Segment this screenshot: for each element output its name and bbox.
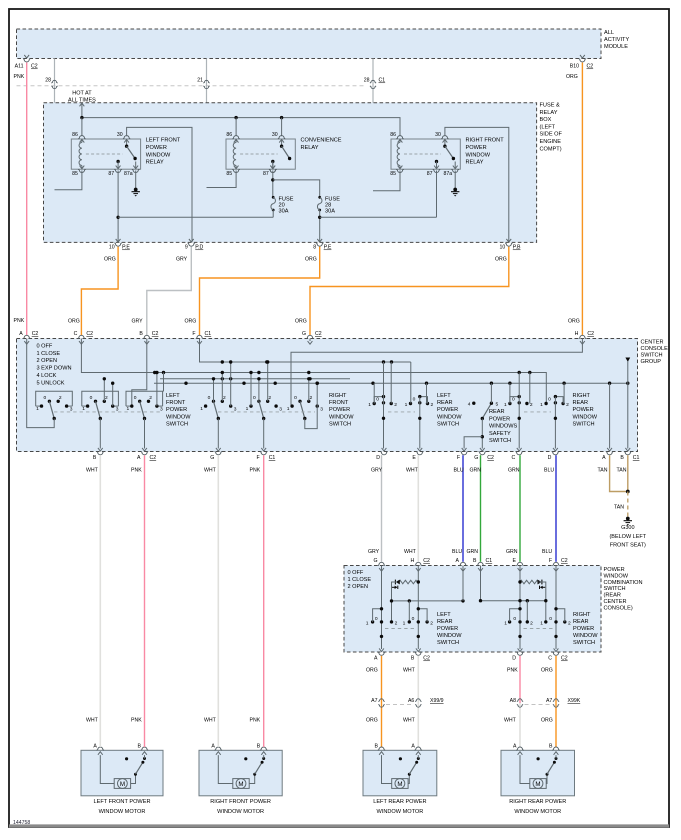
svg-text:LEFT: LEFT bbox=[166, 393, 180, 399]
svg-text:144758: 144758 bbox=[13, 820, 30, 826]
svg-text:1: 1 bbox=[366, 620, 369, 626]
svg-text:0: 0 bbox=[548, 397, 551, 403]
svg-text:0: 0 bbox=[90, 395, 93, 401]
svg-text:RIGHT: RIGHT bbox=[573, 393, 591, 399]
svg-text:A: A bbox=[93, 744, 97, 750]
svg-text:C: C bbox=[548, 656, 552, 662]
svg-text:A: A bbox=[456, 558, 460, 564]
svg-text:BLU: BLU bbox=[454, 468, 464, 474]
fuse 20 30A bbox=[272, 196, 275, 199]
svg-text:ORG: ORG bbox=[366, 718, 378, 724]
wire relay K3 pin 85 to module pin 28 C1 bbox=[373, 171, 400, 191]
svg-text:CONSOLE): CONSOLE) bbox=[604, 605, 633, 611]
wire console D to rear G (GRY) bbox=[381, 455, 383, 562]
svg-text:GRN: GRN bbox=[470, 468, 482, 474]
wire console GRY feed to left front switch bbox=[132, 341, 147, 406]
wire module A11 to console (PNK) bbox=[26, 63, 28, 336]
svg-text:2: 2 bbox=[395, 620, 398, 626]
svg-text:CONVENIENCE: CONVENIENCE bbox=[301, 138, 342, 144]
svg-text:C1: C1 bbox=[633, 455, 640, 461]
svg-text:0: 0 bbox=[43, 395, 46, 401]
console output F C1 bbox=[261, 448, 266, 451]
console output A C2 bbox=[142, 448, 147, 451]
svg-text:C2: C2 bbox=[31, 64, 38, 70]
svg-text:0: 0 bbox=[375, 616, 378, 622]
svg-text:2 OPEN: 2 OPEN bbox=[348, 584, 369, 590]
svg-text:(BELOW LEFT: (BELOW LEFT bbox=[609, 534, 646, 540]
svg-text:0 OFF: 0 OFF bbox=[37, 344, 53, 350]
console output D bbox=[553, 448, 558, 451]
svg-text:2 OPEN: 2 OPEN bbox=[37, 358, 58, 364]
svg-text:A: A bbox=[19, 331, 23, 337]
svg-text:WHT: WHT bbox=[403, 668, 416, 674]
svg-text:CENTER: CENTER bbox=[641, 339, 664, 345]
svg-text:28: 28 bbox=[45, 78, 51, 84]
svg-text:3: 3 bbox=[160, 406, 163, 412]
svg-text:ORG: ORG bbox=[495, 257, 507, 263]
svg-text:A6: A6 bbox=[408, 698, 414, 704]
svg-text:POWER: POWER bbox=[604, 567, 625, 573]
svg-text:0: 0 bbox=[412, 616, 415, 622]
svg-text:ORG: ORG bbox=[541, 718, 553, 724]
console input A C2 bbox=[23, 335, 30, 338]
inline connector pin 28 C1 bbox=[370, 80, 376, 83]
svg-text:RELAY: RELAY bbox=[301, 145, 319, 151]
svg-text:SWITCH: SWITCH bbox=[641, 353, 663, 359]
svg-text:WHT: WHT bbox=[406, 468, 419, 474]
svg-text:COMBINATION: COMBINATION bbox=[604, 580, 643, 586]
console output B bbox=[98, 448, 103, 451]
console output E bbox=[417, 448, 422, 451]
rear window rocker at x=555.4 bbox=[554, 401, 557, 404]
wire console E to rear H (WHT) bbox=[417, 455, 419, 562]
rear box input G bbox=[378, 562, 385, 565]
svg-text:G: G bbox=[210, 455, 214, 461]
svg-text:C1: C1 bbox=[486, 558, 493, 564]
wire bus to relay K2 pin 30 bbox=[281, 118, 283, 137]
svg-text:1: 1 bbox=[36, 406, 39, 412]
svg-text:21: 21 bbox=[197, 78, 203, 84]
svg-text:(REAR: (REAR bbox=[604, 593, 621, 599]
module box ALL ACTIVITY MODULE bbox=[17, 29, 602, 59]
svg-text:BOX: BOX bbox=[540, 117, 552, 123]
svg-text:B: B bbox=[93, 455, 97, 461]
console input B C2 bbox=[143, 335, 150, 338]
svg-text:2: 2 bbox=[430, 620, 433, 626]
motor symbol M2 RIGHT FRONT POWER WINDOW MOTOR bbox=[218, 755, 233, 783]
svg-text:SWITCH: SWITCH bbox=[437, 640, 459, 646]
svg-text:5 UNLOCK: 5 UNLOCK bbox=[37, 380, 65, 386]
inline connector X99K bbox=[517, 699, 523, 702]
wire module pin 21 bbox=[206, 59, 208, 188]
svg-text:TAN: TAN bbox=[617, 468, 627, 474]
svg-text:3: 3 bbox=[320, 406, 323, 412]
svg-text:POWER: POWER bbox=[166, 407, 187, 413]
relay K2 CONVENIENCE RELAY bbox=[226, 139, 295, 169]
wire console bus from H (ORG feed) bbox=[291, 341, 582, 406]
svg-text:C2: C2 bbox=[587, 331, 594, 337]
switch rocker at x=300 bbox=[290, 404, 293, 407]
svg-text:B10: B10 bbox=[570, 64, 579, 70]
svg-text:87a: 87a bbox=[444, 171, 453, 177]
wire rocker to output F C1 bbox=[263, 419, 265, 449]
svg-text:2: 2 bbox=[566, 402, 569, 408]
svg-text:9: 9 bbox=[185, 245, 188, 251]
svg-text:PNK: PNK bbox=[14, 318, 25, 324]
svg-text:0: 0 bbox=[253, 395, 256, 401]
connector A11 C2 (module, PNK) bbox=[24, 55, 29, 58]
wire relay K1 pin 30 to output 9 P.D bbox=[127, 127, 192, 242]
svg-text:C: C bbox=[511, 455, 515, 461]
svg-text:WHT: WHT bbox=[403, 718, 416, 724]
svg-text:A7: A7 bbox=[546, 698, 552, 704]
svg-text:C2: C2 bbox=[561, 558, 568, 564]
wire rear D to motor (PNK to WHT) bbox=[519, 656, 521, 703]
svg-text:POWER: POWER bbox=[489, 416, 510, 422]
wire rocker to output B bbox=[99, 419, 101, 449]
svg-text:WINDOW: WINDOW bbox=[604, 573, 629, 579]
svg-text:E: E bbox=[513, 558, 517, 564]
connector B10 C2 (module, ORG) bbox=[580, 55, 585, 58]
svg-text:TAN: TAN bbox=[598, 468, 608, 474]
svg-text:C: C bbox=[74, 331, 78, 337]
svg-text:F: F bbox=[549, 558, 552, 564]
svg-text:2: 2 bbox=[59, 395, 62, 401]
fuse and relay box bbox=[44, 103, 537, 243]
svg-text:1: 1 bbox=[82, 406, 85, 412]
svg-text:X99/9: X99/9 bbox=[430, 698, 444, 704]
svg-text:C2: C2 bbox=[86, 331, 93, 337]
right rear power window switch (rear box) bbox=[519, 568, 521, 649]
svg-text:C2: C2 bbox=[561, 656, 568, 662]
svg-text:3: 3 bbox=[116, 406, 119, 412]
wire rear A to motor (ORG) bbox=[381, 656, 383, 747]
svg-text:LEFT: LEFT bbox=[437, 612, 451, 618]
wire rear B to motor (WHT) bbox=[417, 656, 419, 747]
svg-text:87: 87 bbox=[427, 171, 433, 177]
svg-text:PNK: PNK bbox=[131, 468, 142, 474]
svg-text:G: G bbox=[474, 455, 478, 461]
svg-text:HOT AT: HOT AT bbox=[72, 91, 92, 97]
svg-text:SWITCH: SWITCH bbox=[329, 421, 351, 427]
svg-text:10: 10 bbox=[500, 245, 506, 251]
wire bus to relay K1 pin 86 bbox=[81, 118, 83, 137]
svg-text:WINDOW: WINDOW bbox=[166, 414, 191, 420]
svg-text:WINDOW: WINDOW bbox=[573, 414, 598, 420]
wire console B to left front motor A (WHT) bbox=[99, 455, 101, 747]
svg-text:2: 2 bbox=[530, 402, 533, 408]
svg-text:C2: C2 bbox=[487, 455, 494, 461]
svg-text:WHT: WHT bbox=[504, 718, 517, 724]
wire rocker to output E bbox=[419, 397, 421, 449]
svg-text:RIGHT: RIGHT bbox=[329, 393, 347, 399]
wire rocker to output D (right) bbox=[554, 397, 556, 449]
wire console bus 1 bbox=[200, 341, 411, 362]
wire rocker to output G bbox=[217, 419, 219, 449]
svg-text:85: 85 bbox=[72, 171, 78, 177]
svg-text:BLU: BLU bbox=[542, 549, 552, 555]
svg-text:PNK: PNK bbox=[131, 718, 142, 724]
svg-text:28: 28 bbox=[364, 78, 370, 84]
svg-text:D: D bbox=[548, 455, 552, 461]
console output G bbox=[216, 448, 221, 451]
svg-text:ORG: ORG bbox=[566, 74, 578, 80]
wire relay K3 pin 87 drop bbox=[436, 171, 438, 218]
svg-text:A11: A11 bbox=[15, 64, 24, 70]
svg-text:RIGHT: RIGHT bbox=[573, 612, 591, 618]
wire relay K2 pin 87 to fuses bbox=[272, 171, 274, 197]
center console switch group box bbox=[17, 339, 638, 452]
svg-text:ORG: ORG bbox=[568, 319, 580, 325]
wire fuse 20 to relay 87 bus bbox=[272, 210, 274, 217]
svg-text:PNK: PNK bbox=[14, 74, 25, 80]
svg-text:1: 1 bbox=[287, 406, 290, 412]
svg-text:SWITCH: SWITCH bbox=[437, 421, 459, 427]
fuse box output 10 P.B bbox=[506, 239, 511, 242]
svg-text:87: 87 bbox=[108, 171, 114, 177]
svg-text:1: 1 bbox=[200, 406, 203, 412]
wire relay K3 pin 30 to output 10 P.B bbox=[445, 127, 509, 242]
svg-text:0: 0 bbox=[512, 397, 515, 403]
svg-text:FRONT: FRONT bbox=[166, 400, 186, 406]
svg-text:0 OFF: 0 OFF bbox=[348, 570, 364, 576]
fuse box output 9 P.D bbox=[189, 239, 194, 242]
svg-text:FRONT: FRONT bbox=[329, 400, 349, 406]
svg-text:ORG: ORG bbox=[185, 319, 197, 325]
svg-text:POWER: POWER bbox=[146, 145, 167, 151]
wire console G to right front motor A (WHT) bbox=[217, 455, 219, 747]
svg-text:GRY: GRY bbox=[371, 468, 383, 474]
console output A bbox=[607, 448, 612, 451]
wire relay K2 pin 85 to module pin 21 bbox=[207, 171, 237, 188]
rear box input F C2 bbox=[552, 562, 559, 565]
harness boundary dashed line bbox=[17, 85, 366, 87]
svg-text:C2: C2 bbox=[423, 656, 430, 662]
fuse box output 10 P.E bbox=[116, 239, 121, 242]
svg-text:2: 2 bbox=[268, 395, 271, 401]
svg-text:C2: C2 bbox=[152, 331, 159, 337]
svg-text:D: D bbox=[376, 455, 380, 461]
motor switch M1 LEFT FRONT POWER WINDOW MOTOR bbox=[131, 774, 136, 783]
svg-text:2: 2 bbox=[223, 395, 226, 401]
svg-text:3: 3 bbox=[70, 406, 73, 412]
wire console D to rear F (BLU) bbox=[555, 455, 557, 562]
svg-text:WHT: WHT bbox=[404, 549, 417, 555]
svg-text:C2: C2 bbox=[315, 331, 322, 337]
wire console bus 2 bbox=[81, 341, 546, 404]
svg-text:M: M bbox=[397, 781, 402, 788]
svg-text:C1: C1 bbox=[205, 331, 212, 337]
svg-text:F: F bbox=[457, 455, 460, 461]
svg-text:CENTER: CENTER bbox=[604, 599, 627, 605]
svg-text:WHT: WHT bbox=[204, 718, 217, 724]
svg-text:1: 1 bbox=[540, 402, 543, 408]
svg-text:POWER: POWER bbox=[329, 407, 350, 413]
wire module pin 28 (left) bbox=[54, 59, 56, 190]
svg-text:3: 3 bbox=[234, 406, 237, 412]
svg-text:86: 86 bbox=[72, 132, 78, 138]
svg-text:10: 10 bbox=[109, 245, 115, 251]
svg-text:RELAY: RELAY bbox=[466, 160, 484, 166]
svg-text:1: 1 bbox=[504, 402, 507, 408]
switch rocker at x=95.5 bbox=[82, 391, 119, 406]
svg-text:ALL: ALL bbox=[604, 30, 614, 36]
svg-text:A: A bbox=[211, 744, 215, 750]
svg-text:A: A bbox=[374, 656, 378, 662]
wire console F to rear A (BLU) bbox=[462, 455, 464, 562]
wire console F to right front motor B (PNK) bbox=[263, 455, 265, 747]
svg-text:B: B bbox=[375, 744, 379, 750]
svg-text:P.E: P.E bbox=[324, 245, 332, 251]
motor symbol M3 LEFT REAR POWER WINDOW MOTOR bbox=[382, 755, 392, 783]
svg-text:FUSE &: FUSE & bbox=[540, 103, 560, 109]
svg-text:2: 2 bbox=[530, 620, 533, 626]
svg-text:M: M bbox=[535, 781, 540, 788]
console input G C2 bbox=[306, 335, 313, 338]
inline connector X99/9 bbox=[378, 699, 384, 702]
motor symbol M1 LEFT FRONT POWER WINDOW MOTOR bbox=[100, 755, 114, 783]
svg-text:0: 0 bbox=[513, 616, 516, 622]
svg-text:WINDOW: WINDOW bbox=[437, 633, 462, 639]
svg-text:GRN: GRN bbox=[508, 468, 520, 474]
wire console bus 3 bbox=[160, 378, 350, 380]
svg-text:LEFT: LEFT bbox=[437, 393, 451, 399]
motor switch M4 RIGHT REAR POWER WINDOW MOTOR bbox=[545, 774, 548, 783]
ground G300 below left front seat bbox=[626, 517, 630, 521]
svg-text:A: A bbox=[513, 744, 517, 750]
svg-text:ALL TIMES: ALL TIMES bbox=[68, 97, 96, 103]
motor M3 LEFT REAR POWER WINDOW MOTOR bbox=[363, 750, 437, 796]
svg-text:M: M bbox=[120, 781, 125, 788]
svg-text:GROUP: GROUP bbox=[641, 359, 662, 365]
svg-text:SAFETY: SAFETY bbox=[489, 431, 511, 437]
svg-text:C2: C2 bbox=[587, 64, 594, 70]
svg-text:C1: C1 bbox=[379, 78, 386, 84]
svg-text:5: 5 bbox=[496, 402, 499, 408]
svg-text:ORG: ORG bbox=[366, 668, 378, 674]
svg-text:86: 86 bbox=[390, 132, 396, 138]
svg-text:LEFT FRONT POWER: LEFT FRONT POWER bbox=[94, 799, 151, 805]
svg-text:A: A bbox=[411, 744, 415, 750]
svg-text:SWITCH: SWITCH bbox=[604, 586, 626, 592]
left rear power window switch (rear box) bbox=[381, 568, 383, 649]
wire rocker to output C bbox=[518, 373, 520, 449]
wire rear bus right bbox=[481, 600, 546, 602]
svg-text:M: M bbox=[238, 781, 243, 788]
motor M2 RIGHT FRONT POWER WINDOW MOTOR bbox=[199, 750, 282, 796]
console input F C1 bbox=[196, 335, 203, 338]
svg-text:30A: 30A bbox=[325, 209, 335, 215]
svg-text:LEFT FRONT: LEFT FRONT bbox=[146, 138, 181, 144]
svg-text:C1: C1 bbox=[269, 455, 276, 461]
svg-text:2: 2 bbox=[431, 402, 434, 408]
svg-text:PNK: PNK bbox=[507, 668, 518, 674]
rear power windows safety switch bbox=[472, 402, 475, 405]
wire module pin 28 C1 bbox=[372, 59, 374, 191]
svg-text:P.D: P.D bbox=[195, 245, 203, 251]
rear box output C C2 bbox=[554, 648, 559, 651]
svg-text:REAR: REAR bbox=[573, 400, 589, 406]
svg-text:1: 1 bbox=[368, 402, 371, 408]
svg-text:GRY: GRY bbox=[132, 319, 144, 325]
svg-text:1: 1 bbox=[405, 402, 408, 408]
svg-text:1 CLOSE: 1 CLOSE bbox=[37, 351, 61, 357]
svg-text:WINDOW: WINDOW bbox=[329, 414, 354, 420]
svg-text:C2: C2 bbox=[423, 558, 430, 564]
svg-text:WINDOW MOTOR: WINDOW MOTOR bbox=[99, 809, 146, 815]
svg-text:C2: C2 bbox=[150, 455, 157, 461]
svg-text:85: 85 bbox=[390, 171, 396, 177]
svg-text:COMPT): COMPT) bbox=[540, 146, 562, 152]
relay K3 RIGHT FRONT POWER WINDOW RELAY bbox=[391, 139, 460, 169]
svg-text:(LEFT: (LEFT bbox=[540, 124, 556, 130]
svg-text:REAR: REAR bbox=[489, 409, 505, 415]
svg-text:F: F bbox=[192, 331, 195, 337]
console input H C2 bbox=[579, 335, 586, 338]
rear box output D bbox=[518, 648, 523, 651]
console input C C2 bbox=[78, 335, 85, 338]
svg-text:WINDOW MOTOR: WINDOW MOTOR bbox=[217, 809, 264, 815]
inline connector pin 21 bbox=[203, 80, 209, 83]
svg-text:WHT: WHT bbox=[86, 468, 99, 474]
fuse box output 8 P.E bbox=[317, 239, 322, 242]
svg-text:WINDOW MOTOR: WINDOW MOTOR bbox=[514, 809, 561, 815]
svg-text:POWER: POWER bbox=[437, 626, 458, 632]
svg-text:8: 8 bbox=[313, 245, 316, 251]
svg-text:X99K: X99K bbox=[568, 698, 581, 704]
svg-text:P.E: P.E bbox=[122, 245, 130, 251]
svg-text:B: B bbox=[620, 455, 624, 461]
svg-text:30: 30 bbox=[435, 132, 441, 138]
svg-text:G300: G300 bbox=[621, 525, 634, 531]
svg-text:SWITCH: SWITCH bbox=[166, 421, 188, 427]
wire console bus 4 bbox=[154, 382, 628, 384]
svg-text:B: B bbox=[473, 558, 477, 564]
svg-text:P.B: P.B bbox=[513, 245, 521, 251]
svg-text:F: F bbox=[257, 455, 260, 461]
svg-text:87a: 87a bbox=[124, 171, 133, 177]
svg-text:H: H bbox=[411, 558, 415, 564]
svg-text:A8: A8 bbox=[510, 698, 516, 704]
motor M1 LEFT FRONT POWER WINDOW MOTOR bbox=[81, 750, 163, 796]
wire console A B to ground G300 (TAN) bbox=[610, 455, 628, 491]
svg-text:1: 1 bbox=[246, 406, 249, 412]
svg-text:87: 87 bbox=[263, 171, 269, 177]
svg-text:REAR: REAR bbox=[573, 619, 589, 625]
svg-text:POWER: POWER bbox=[573, 626, 594, 632]
svg-text:3 EXP DOWN: 3 EXP DOWN bbox=[37, 366, 72, 372]
svg-text:1: 1 bbox=[403, 620, 406, 626]
svg-text:ENGINE: ENGINE bbox=[540, 139, 562, 145]
svg-text:WINDOW: WINDOW bbox=[573, 633, 598, 639]
svg-text:A: A bbox=[137, 455, 141, 461]
svg-text:A: A bbox=[602, 455, 606, 461]
rear box input H C2 bbox=[415, 562, 422, 565]
svg-text:1: 1 bbox=[540, 620, 543, 626]
rear box input E bbox=[516, 562, 523, 565]
switch rocker at x=213.5 bbox=[204, 404, 207, 407]
svg-text:WINDOW MOTOR: WINDOW MOTOR bbox=[376, 809, 423, 815]
svg-text:ORG: ORG bbox=[541, 668, 553, 674]
svg-text:2: 2 bbox=[149, 395, 152, 401]
svg-text:SWITCH: SWITCH bbox=[573, 421, 595, 427]
motor switch M3 LEFT REAR POWER WINDOW MOTOR bbox=[408, 774, 409, 783]
svg-text:ACTIVITY: ACTIVITY bbox=[604, 37, 629, 43]
console output F bbox=[462, 448, 467, 451]
svg-text:30A: 30A bbox=[279, 209, 289, 215]
svg-text:WHT: WHT bbox=[86, 718, 99, 724]
wire module B10 to console H (ORG) bbox=[581, 63, 583, 336]
